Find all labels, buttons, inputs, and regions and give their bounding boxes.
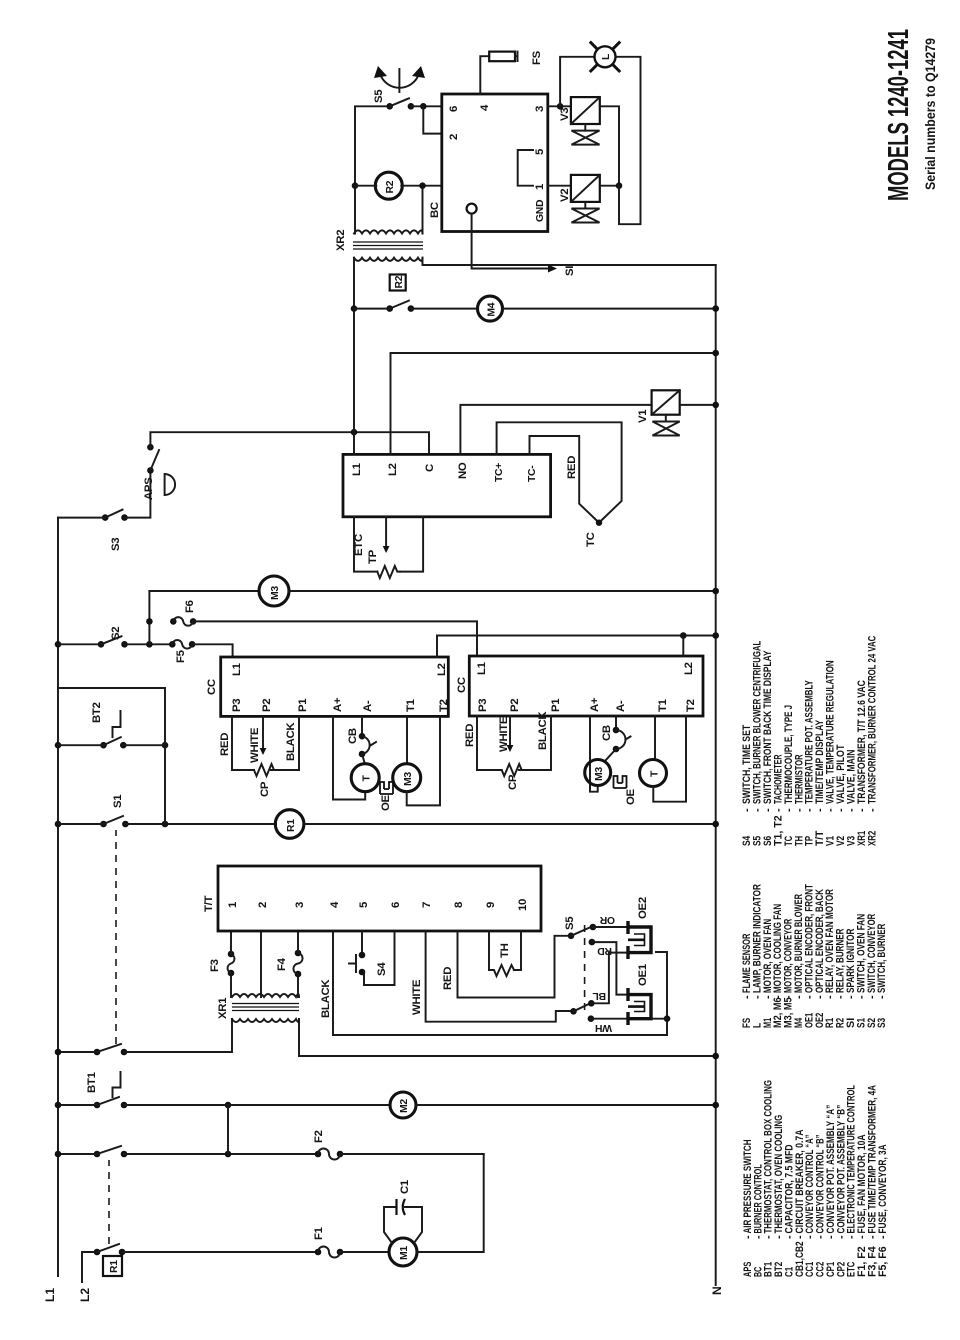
junction M2-N (712, 1102, 719, 1109)
transformer XR2 primary coil (354, 258, 423, 261)
svg-text:BLACK: BLACK (285, 722, 297, 761)
lamp L burner indicator (595, 46, 616, 67)
transformer XR2 secondary coil (354, 230, 423, 233)
svg-text:L1: L1 (351, 462, 363, 476)
svg-text:GND: GND (535, 199, 546, 222)
wire S5 to BC pins 6 and 2 (411, 105, 442, 107)
svg-text:V2: V2 (559, 189, 571, 202)
wire V3 return (600, 106, 619, 185)
svg-text:-: - (866, 808, 878, 812)
rotary actuator symbol (398, 69, 400, 92)
pot CP1 black lead (272, 716, 299, 770)
wire BC pin3 to V3 (548, 105, 571, 107)
wire XR1 primary pin2 (260, 931, 262, 997)
svg-text:P3: P3 (231, 699, 243, 712)
fuse F1 (315, 1249, 322, 1256)
wire WH to black run (591, 1018, 667, 1020)
svg-text:F5, F6: F5, F6 (877, 1246, 889, 1277)
wire ETC NO to V1 (460, 405, 651, 455)
pot CP2 red lead (477, 716, 502, 770)
wire S3 rung from bus corner (58, 470, 150, 517)
wire T1 to motor M3 (406, 716, 408, 763)
wire R1 to N (304, 823, 716, 825)
relay coil R1 (275, 810, 304, 839)
switch S1 oven fan (55, 821, 62, 828)
pot CP2 black lead (522, 716, 551, 770)
svg-text:SWITCH, BURNER: SWITCH, BURNER (876, 924, 888, 993)
svg-text:F1: F1 (313, 1226, 325, 1240)
pot CP2 wiper white (509, 716, 511, 745)
pot CP2 element (502, 764, 522, 776)
svg-text:V3: V3 (559, 108, 571, 121)
svg-text:7: 7 (421, 902, 433, 908)
wire S2 rung (58, 643, 172, 645)
switch S6 selector pole B (570, 1008, 577, 1015)
svg-text:TC+: TC+ (494, 463, 505, 482)
svg-text:N: N (710, 1286, 724, 1295)
junction F2 rung to BT1 rung (225, 1151, 232, 1158)
svg-text:4: 4 (329, 901, 341, 908)
wire CC1 L2 to N (437, 636, 716, 658)
wire N bus riser to XR2 return (423, 258, 716, 265)
wire XR2 secondary bottom to R2 line (422, 186, 424, 234)
svg-text:1: 1 (534, 183, 546, 190)
svg-text:XR1: XR1 (217, 997, 229, 1019)
svg-text:P1: P1 (550, 698, 562, 712)
switch S5 selector pole A (568, 933, 575, 940)
svg-text:C: C (424, 464, 436, 472)
wire F6 to CC2 L1 (193, 621, 477, 655)
svg-text:BT2: BT2 (91, 702, 103, 723)
svg-text:-: - (876, 995, 888, 999)
svg-text:RED: RED (566, 456, 578, 479)
svg-text:FUSE, CONVEYOR, 3A: FUSE, CONVEYOR, 3A (877, 1144, 889, 1233)
pot CP1 wiper white (262, 716, 264, 748)
wire ETC L1 riser to XR2 (353, 258, 355, 455)
tachometer T (B) (640, 760, 667, 787)
svg-text:-: - (877, 1235, 889, 1239)
junction R2 coil tap (352, 182, 359, 189)
junction XR1-N (712, 1053, 719, 1060)
pot CP1 red lead (232, 716, 254, 770)
junction riser dots (162, 821, 169, 828)
svg-text:2: 2 (257, 902, 269, 908)
svg-text:T1: T1 (405, 698, 417, 712)
wire bus jog riser (58, 688, 165, 824)
motor M3 conveyor drive A (393, 764, 421, 792)
wire T2 return to M3 (407, 716, 440, 805)
svg-text:L1: L1 (231, 662, 243, 676)
svg-text:T2: T2 (685, 699, 697, 712)
motor M4 burner blower (478, 296, 503, 321)
wire S4 return to pin6 (364, 931, 395, 985)
board CC1 conveyor control A (221, 657, 449, 716)
fuse F6 (170, 618, 177, 625)
svg-text:T2: T2 (438, 699, 450, 712)
svg-text:M1: M1 (399, 1246, 410, 1260)
board ETC electronic temperature control (343, 454, 551, 516)
svg-text:5: 5 (358, 901, 370, 908)
svg-text:RED: RED (464, 724, 476, 747)
svg-text:BT1: BT1 (86, 1071, 98, 1093)
switch S4 time set (361, 931, 363, 955)
svg-text:P2: P2 (509, 699, 521, 712)
svg-text:V1: V1 (637, 409, 649, 423)
spark ignitor SI (467, 204, 477, 214)
switch S5 burner blower centrifugal (386, 103, 393, 110)
svg-text:CC: CC (456, 677, 468, 693)
wire XR2 secondary top to S5 (355, 106, 390, 233)
junction bus dots (55, 1151, 62, 1158)
wire BT1/M2 rung (58, 1104, 390, 1106)
wire R2 coil line (355, 185, 442, 187)
wire M4 rung (354, 308, 478, 310)
tachometer T (A) (351, 764, 379, 792)
svg-text:R2: R2 (394, 275, 405, 288)
encoder glyph OE (A) (380, 782, 393, 794)
svg-text:OE: OE (625, 788, 637, 805)
wire pin8 RED (458, 931, 572, 998)
wire L2 entry lead (82, 1252, 97, 1282)
encoder glyph OE (B) (614, 776, 627, 788)
wire V1 to N (680, 404, 716, 406)
wire M2 to N (416, 1104, 716, 1106)
svg-text:L: L (601, 53, 612, 60)
wire T1 to tach T (B) (654, 716, 656, 760)
wire F2 rung from bus (58, 1153, 318, 1155)
svg-text:T: T (650, 770, 661, 777)
wire A+ to tach T (333, 716, 365, 799)
svg-text:M3: M3 (403, 772, 414, 786)
wire XR1 primary pin3 with fuse F4 (297, 974, 299, 997)
svg-text:S5: S5 (564, 916, 576, 930)
node OR terminal (590, 924, 597, 931)
pot TP temperature (354, 517, 377, 572)
optical encoder OE1 (628, 988, 651, 1025)
motor M3 conveyor A (259, 576, 289, 606)
wire CC2 L2 to N riser (682, 636, 684, 657)
capacitor C1 (384, 1207, 396, 1243)
svg-text:F4: F4 (276, 957, 288, 971)
relay contact R1 (in M1 rung) (94, 1249, 101, 1256)
breaker CB1 (361, 716, 363, 736)
relay contact R2 (M4 rung) (351, 305, 358, 312)
svg-text:M2: M2 (399, 1099, 410, 1113)
svg-text:TC-: TC- (527, 465, 538, 482)
svg-text:TH: TH (499, 943, 511, 958)
wire F5 to CC1 L1 (192, 644, 233, 657)
valve V2 pilot (571, 175, 600, 202)
svg-text:A+: A+ (589, 697, 601, 712)
svg-text:R2: R2 (385, 180, 396, 193)
svg-text:Serial numbers to Q14279: Serial numbers to Q14279 (923, 38, 938, 190)
fuse F5 (169, 641, 176, 648)
wire N bottom bus (715, 265, 717, 1285)
valve V1 body (665, 415, 667, 422)
switch (ganged with S1) XR1 feed rung (94, 1049, 101, 1056)
svg-text:2: 2 (448, 134, 460, 140)
switch S2 conveyor (55, 641, 62, 648)
motor M3 conveyor drive B (585, 760, 611, 786)
junction APS line with ETC L1 riser (351, 429, 358, 436)
svg-text:F6: F6 (184, 600, 196, 613)
svg-text:L1: L1 (476, 661, 488, 675)
wire M3 rung top (149, 590, 259, 592)
motor M1 (389, 1238, 417, 1266)
svg-text:M3: M3 (270, 586, 281, 600)
wire T2 return to tach (653, 716, 686, 802)
wire OR to OE2 (593, 926, 627, 928)
svg-text:CB: CB (347, 728, 359, 744)
wire M3 to N (289, 590, 716, 592)
svg-text:8: 8 (453, 902, 465, 908)
wire BT2 rung (58, 744, 165, 746)
valve V1 solenoid (652, 390, 680, 414)
svg-text:6: 6 (448, 106, 460, 112)
wire APS to ETC C pin (150, 432, 429, 454)
switch (ganged with R1 contact) on F2 rung (94, 1151, 101, 1158)
svg-text:C1: C1 (399, 1179, 411, 1194)
svg-text:F2: F2 (313, 1130, 325, 1143)
wire ETC TC+ to thermocouple (497, 422, 622, 522)
wire lamp branch from pin3 (560, 57, 594, 107)
transformer XR2 core (353, 242, 423, 249)
svg-text:BLACK: BLACK (320, 979, 332, 1018)
svg-text:BC: BC (429, 202, 441, 218)
svg-text:3: 3 (534, 106, 546, 112)
svg-text:A-: A- (362, 700, 374, 712)
transformer XR1 core (232, 1004, 299, 1011)
wire BC pin1 to V2 (548, 185, 571, 187)
svg-text:TRANSFORMER, BURNER CONTROL 24: TRANSFORMER, BURNER CONTROL 24 VAC (866, 636, 878, 804)
svg-text:T: T (362, 775, 373, 782)
svg-text:R1: R1 (286, 819, 297, 832)
svg-text:OE1: OE1 (637, 963, 649, 986)
board CC2 conveyor control B (469, 656, 703, 716)
svg-text:TP: TP (367, 549, 379, 564)
svg-text:M3: M3 (594, 767, 605, 781)
svg-text:OE: OE (380, 794, 392, 811)
svg-text:P1: P1 (297, 698, 309, 712)
thermocouple TC (596, 520, 602, 526)
svg-text:L2: L2 (387, 463, 399, 476)
relay coil R2 (375, 172, 402, 199)
board BC burner control (442, 94, 548, 232)
wire pin4 BLACK (333, 931, 667, 1035)
svg-text:R1: R1 (109, 1260, 120, 1273)
svg-text:CB: CB (601, 725, 613, 741)
svg-text:OE2: OE2 (637, 897, 649, 919)
svg-text:4: 4 (479, 104, 491, 111)
svg-text:CP: CP (507, 774, 519, 790)
svg-text:P2: P2 (261, 699, 273, 712)
svg-text:XR2: XR2 (866, 831, 878, 846)
wire M1 rung lower + return to F2 rung (417, 1154, 484, 1252)
wire M4 to N (503, 308, 716, 310)
thermostat BT1 (94, 1102, 101, 1109)
svg-text:6: 6 (390, 902, 402, 908)
svg-text:SI: SI (564, 266, 576, 276)
wire S1 rung (58, 823, 276, 825)
wire internal 5-1 jumper (518, 150, 533, 186)
transformer XR1 primary coil (232, 994, 299, 997)
optical encoder OE2 (628, 921, 651, 959)
svg-text:L2: L2 (683, 662, 695, 675)
svg-text:FS: FS (531, 50, 543, 65)
wire XR1 feed rung (58, 1019, 232, 1052)
fuse F2 (315, 1151, 322, 1158)
motor M2 (390, 1092, 416, 1118)
svg-text:F3: F3 (209, 959, 221, 972)
svg-text:L2: L2 (436, 663, 448, 676)
svg-text:3: 3 (294, 902, 306, 908)
wire XR1 primary pin1 with fuse F3 (230, 973, 232, 997)
svg-text:MODELS 1240-1241: MODELS 1240-1241 (883, 29, 915, 201)
svg-text:WH: WH (595, 1022, 612, 1033)
junction WH wire on black run (664, 1015, 671, 1022)
thermistor TH pins 9-10 (489, 931, 521, 970)
svg-text:A+: A+ (332, 697, 344, 712)
svg-text:WHITE: WHITE (411, 979, 423, 1015)
wire mechanical link dashed R1 (108, 1160, 110, 1244)
svg-text:S4: S4 (376, 962, 388, 976)
svg-text:RED: RED (442, 967, 454, 990)
transformer XR1 secondary coil (232, 1019, 299, 1022)
svg-text:9: 9 (485, 902, 497, 908)
svg-text:T1: T1 (657, 698, 669, 712)
svg-text:10: 10 (517, 899, 529, 911)
svg-text:F5: F5 (175, 649, 187, 663)
svg-text:CP: CP (259, 781, 271, 797)
board T/T time-temp display (218, 866, 541, 931)
wire L1 top bus (57, 518, 59, 1276)
wire dashed gang S1 (115, 830, 117, 1044)
svg-text:NO: NO (457, 462, 469, 479)
svg-text:P3: P3 (477, 699, 489, 712)
pot CP1 element (254, 764, 274, 776)
svg-text:WHITE: WHITE (498, 716, 510, 752)
svg-text:5: 5 (534, 148, 546, 155)
svg-text:S3: S3 (876, 1018, 888, 1028)
wire M1 rung upper (122, 1251, 318, 1253)
svg-text:1: 1 (227, 901, 239, 908)
svg-text:WHITE: WHITE (249, 727, 261, 763)
node WH terminal (588, 1015, 595, 1022)
svg-text:APS: APS (143, 477, 155, 500)
svg-text:T/T: T/T (203, 895, 215, 912)
svg-text:BL: BL (592, 990, 606, 1001)
flame sensor FS on pin 4 (480, 56, 489, 94)
breaker CB2 (615, 716, 617, 730)
wire A+ to motor M3 (B) (590, 716, 598, 792)
wire M1 rung to motor (340, 1251, 389, 1253)
junction riser on S2 rung (146, 641, 153, 648)
wire V2 return joining V3 and lamp returns (600, 185, 619, 187)
wire black bottom run to OE2 (656, 952, 667, 1035)
wire pin7 WHITE (426, 931, 574, 1022)
svg-text:L1: L1 (43, 1288, 57, 1302)
svg-text:M4: M4 (486, 302, 497, 316)
wire ETC TC- to thermocouple (530, 436, 600, 523)
wire dashed gang S5/S6 (584, 921, 586, 1010)
svg-text:RED: RED (219, 733, 231, 756)
wire ETC L2 to N (391, 353, 716, 454)
svg-text:A-: A- (615, 700, 627, 712)
wire RD to OE1 (592, 942, 627, 995)
svg-text:TC: TC (585, 532, 597, 547)
svg-text:BLACK: BLACK (537, 711, 549, 750)
wire F2 rung lower (340, 1153, 484, 1155)
pressure switch APS (147, 467, 154, 474)
svg-text:L2: L2 (78, 1288, 92, 1302)
wire XR1 secondary bottom to N (299, 1019, 716, 1056)
switch S3 burner (102, 514, 109, 521)
svg-text:S2: S2 (110, 627, 122, 640)
svg-text:XR2: XR2 (335, 230, 347, 251)
svg-text:S3: S3 (110, 538, 122, 551)
svg-text:OR: OR (599, 914, 615, 925)
thermostat BT2 (55, 742, 62, 749)
wire BL to OE2 (591, 953, 627, 1004)
node RD terminal (589, 939, 596, 946)
wire riser to F6 and M3 rungs (148, 591, 150, 644)
node BL terminal (588, 1000, 595, 1007)
svg-text:CC: CC (206, 679, 218, 695)
svg-text:S1: S1 (112, 794, 124, 808)
svg-text:S5: S5 (373, 89, 385, 103)
valve V3 main (571, 97, 600, 124)
